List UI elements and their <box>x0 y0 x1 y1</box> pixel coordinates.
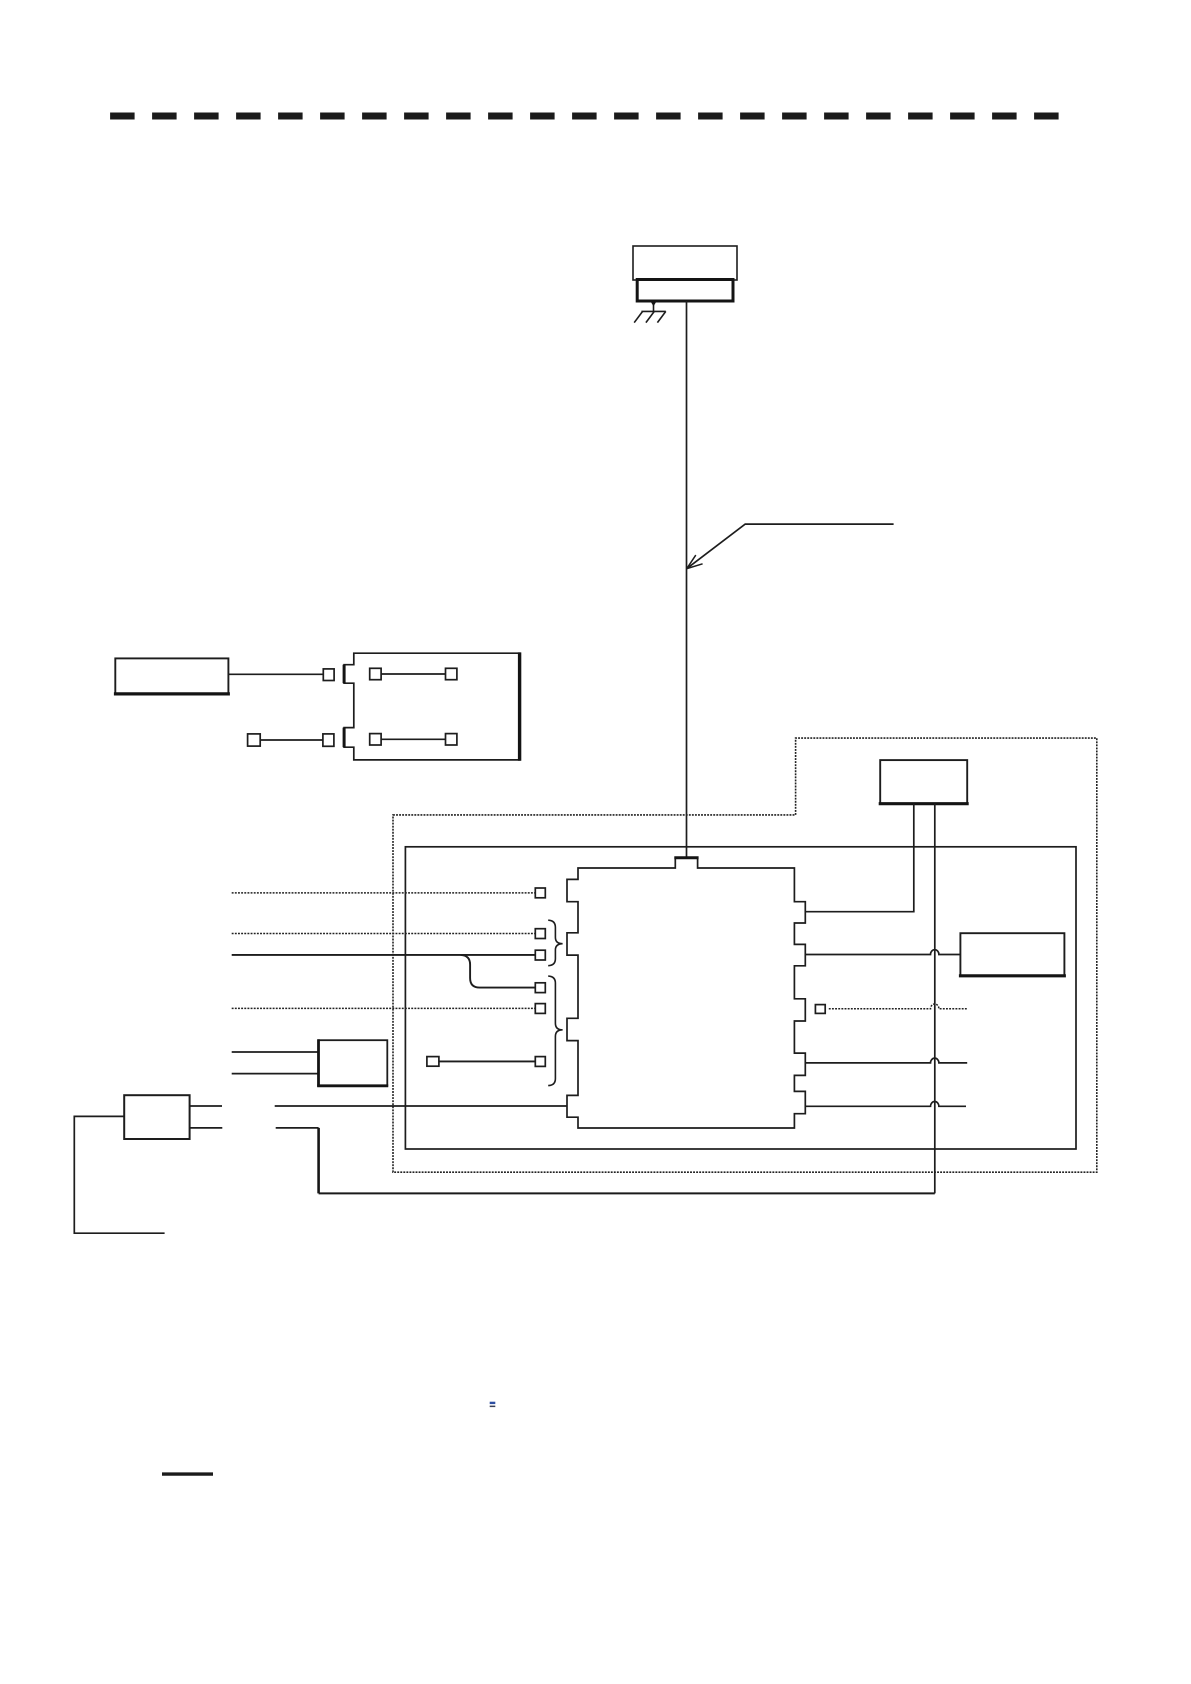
brace group 2 <box>548 976 562 1086</box>
short wire iso square to P6 <box>439 1060 535 1062</box>
pin square P4 <box>535 983 545 993</box>
mid-left box <box>319 1040 388 1086</box>
wire lower-left box lower (with gap) to riser <box>190 1127 223 1129</box>
dotted unit boundary <box>393 738 1097 1172</box>
top unit box <box>880 760 967 803</box>
callout leader arrow <box>687 524 894 569</box>
iso pin square <box>427 1057 439 1067</box>
dotted wire right (hop) <box>829 1004 967 1009</box>
antenna unit top box <box>633 246 737 280</box>
antenna unit base box (bold) <box>637 280 733 302</box>
wire IC right lower 1 (hop) <box>805 1058 967 1063</box>
chassis ground <box>634 311 666 322</box>
dotted wire left 2 <box>232 933 536 935</box>
riser wire <box>317 1128 320 1194</box>
connector inner pin pair bottom <box>370 734 381 745</box>
pin square P5 <box>535 1004 545 1014</box>
wire top box leg A to IC pin <box>805 804 914 912</box>
blue equals mark <box>490 1402 496 1404</box>
right box <box>960 933 1064 975</box>
branch wire to P4 <box>461 955 536 988</box>
wire IC right lower 2 (hop) <box>805 1102 966 1107</box>
IC U1 outline <box>567 858 805 1128</box>
solid wire left to P3 <box>232 954 536 956</box>
left module box <box>115 658 228 694</box>
dotted wire left 1 <box>232 892 536 894</box>
pin square P6 <box>535 1057 545 1067</box>
antenna feed wire <box>686 301 688 858</box>
hook wire from lower-left box <box>74 1116 164 1233</box>
header dashed rule <box>110 113 1059 120</box>
lower-left box <box>124 1095 189 1139</box>
right pin square <box>815 1005 825 1014</box>
wire top box leg B long vertical <box>934 804 936 1194</box>
main board outline <box>405 847 1076 1149</box>
wire IC to right box (hop) <box>805 950 960 955</box>
pin square P1 <box>535 888 545 898</box>
wire lower-left box to IC (with gap) <box>190 1105 222 1107</box>
IC top tab bold edge <box>674 856 698 859</box>
connector housing <box>344 653 519 760</box>
brace group 1 <box>548 920 562 966</box>
pin square P3 <box>535 950 545 960</box>
connector outside pin pair bottom <box>248 734 261 746</box>
short bold rule <box>162 1472 213 1475</box>
dotted wire left 3 <box>232 1007 536 1009</box>
pin square P2 <box>535 929 545 939</box>
connector inner pin pair top <box>370 668 381 679</box>
ground stem <box>653 301 655 311</box>
wire pair to mid-left box <box>232 1051 319 1053</box>
wire module to connector pin <box>228 673 323 675</box>
long bottom wire <box>319 1192 935 1194</box>
connector pin square outside top <box>323 669 334 681</box>
